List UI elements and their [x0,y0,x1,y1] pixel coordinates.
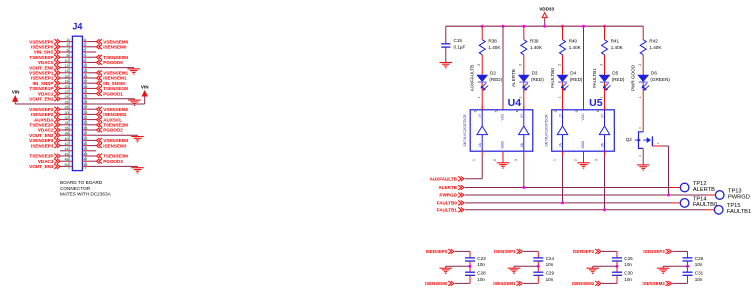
svg-text:(RED): (RED) [531,77,544,82]
svg-text:GND: GND [581,141,585,149]
svg-text:VIN: VIN [141,84,149,89]
svg-text:R40: R40 [569,38,578,43]
svg-text:1: 1 [553,159,557,161]
svg-text:C24: C24 [546,256,555,261]
svg-text:1: 1 [477,96,481,98]
svg-text:3: 3 [514,159,518,161]
svg-text:ISENSEM1: ISENSEM1 [493,281,516,286]
svg-text:FAULTB1: FAULTB1 [727,209,751,215]
svg-text:ALERTB: ALERTB [511,69,516,87]
svg-text:ISENSEM0: ISENSEM0 [425,281,448,286]
svg-text:PGOOD0: PGOOD0 [103,60,123,65]
svg-text:D6: D6 [651,71,657,76]
svg-text:VDD33: VDD33 [539,6,554,11]
svg-text:34: 34 [65,121,69,125]
svg-text:1.40K: 1.40K [649,45,662,50]
svg-text:ISENSEM3: ISENSEM3 [642,281,665,286]
svg-text:D2: D2 [490,71,496,76]
svg-text:ISENSEM0: ISENSEM0 [103,45,127,50]
svg-text:PWRGD: PWRGD [728,194,750,200]
svg-text:ISENSEP3: ISENSEP3 [31,143,54,148]
svg-text:1.40K: 1.40K [569,45,582,50]
svg-text:10n: 10n [695,277,703,282]
svg-text:ISENSEM3: ISENSEM3 [103,143,127,148]
svg-text:SN74LVC2G07DCR: SN74LVC2G07DCR [463,114,467,147]
svg-text:CONNECTOR: CONNECTOR [60,186,91,191]
svg-text:10n: 10n [624,262,632,267]
svg-text:4: 4 [596,110,600,112]
svg-text:10n: 10n [624,277,632,282]
svg-text:PWR GOOD: PWR GOOD [631,64,636,91]
svg-text:2: 2 [557,64,561,66]
svg-text:22: 22 [65,90,69,94]
svg-text:J4: J4 [72,22,82,32]
svg-text:1.40K: 1.40K [488,45,501,50]
svg-text:(RED): (RED) [612,77,625,82]
svg-text:R39: R39 [530,38,539,43]
svg-text:2: 2 [638,64,642,66]
svg-text:10n: 10n [477,277,485,282]
svg-text:ISENSEP0: ISENSEP0 [426,249,448,254]
svg-text:R41: R41 [611,38,620,43]
svg-text:2: 2 [574,159,578,161]
svg-text:PGOOD2: PGOOD2 [103,128,123,133]
svg-text:Q2: Q2 [626,137,633,142]
svg-text:2: 2 [477,64,481,66]
svg-text:8: 8 [67,54,69,58]
svg-text:6: 6 [67,48,69,52]
svg-text:VIN: VIN [12,89,20,94]
svg-text:44: 44 [65,147,69,151]
svg-text:10n: 10n [546,277,554,282]
svg-text:ISENSEP2: ISENSEP2 [573,249,595,254]
svg-text:36: 36 [65,126,69,130]
svg-text:C23: C23 [477,256,486,261]
svg-text:FAULTB0: FAULTB0 [550,68,555,88]
svg-text:38: 38 [65,132,69,136]
svg-text:D5: D5 [612,71,618,76]
svg-text:30: 30 [65,111,69,115]
svg-text:4: 4 [67,43,69,47]
svg-text:C28: C28 [477,270,486,275]
svg-text:AUXFAULTB: AUXFAULTB [470,65,475,91]
svg-text:FAULTB0: FAULTB0 [437,201,458,206]
svg-text:1.40K: 1.40K [530,45,543,50]
svg-text:1: 1 [472,159,476,161]
svg-text:SN74LVC2G07DCR: SN74LVC2G07DCR [544,114,548,147]
svg-text:D4: D4 [570,71,576,76]
svg-text:C30: C30 [624,270,633,275]
svg-text:FAULTB1: FAULTB1 [592,68,597,88]
svg-text:(RED): (RED) [489,77,502,82]
svg-text:(RED): (RED) [570,77,583,82]
svg-text:14: 14 [65,69,69,73]
svg-text:2: 2 [67,38,69,42]
svg-text:10: 10 [65,59,69,63]
svg-text:1: 1 [557,96,561,98]
svg-text:PWRGD: PWRGD [439,193,457,198]
svg-text:VOUT_EN1: VOUT_EN1 [29,97,54,102]
svg-text:2: 2 [599,64,603,66]
svg-text:GND: GND [500,141,504,149]
svg-text:4: 4 [515,110,519,112]
svg-text:U5: U5 [589,97,603,109]
svg-text:50: 50 [65,163,69,167]
svg-text:MATES WITH DC2363A: MATES WITH DC2363A [60,192,112,197]
svg-text:0.1µF: 0.1µF [454,44,466,49]
svg-text:10n: 10n [546,262,554,267]
svg-text:5: 5 [495,110,499,112]
svg-text:FAULTB1: FAULTB1 [437,208,458,213]
svg-text:2: 2 [493,159,497,161]
svg-text:U4: U4 [508,97,522,109]
svg-text:ISENSEP1: ISENSEP1 [494,249,516,254]
svg-text:5: 5 [575,110,579,112]
svg-text:46: 46 [65,152,69,156]
svg-text:PGOOD3: PGOOD3 [103,159,123,164]
svg-text:18: 18 [65,80,69,84]
svg-text:ISENSEP3: ISENSEP3 [643,249,665,254]
svg-text:C15: C15 [454,38,463,43]
svg-text:20: 20 [65,85,69,89]
svg-text:ISENSEM2: ISENSEM2 [572,281,595,286]
svg-text:BOARD TO BOARD: BOARD TO BOARD [60,180,103,185]
svg-text:(GREEN): (GREEN) [650,77,670,82]
svg-text:AUXFAULTB: AUXFAULTB [430,177,458,182]
svg-text:24: 24 [65,95,69,99]
svg-text:C26: C26 [695,256,704,261]
svg-text:42: 42 [65,142,69,146]
svg-text:28: 28 [65,106,69,110]
svg-text:D3: D3 [532,71,538,76]
svg-text:32: 32 [65,116,69,120]
svg-text:6: 6 [554,110,558,112]
svg-text:ALERTB: ALERTB [693,187,715,193]
svg-text:PGOOD1: PGOOD1 [103,91,123,96]
svg-text:VCC: VCC [581,113,585,121]
svg-text:12: 12 [65,64,69,68]
svg-text:40: 40 [65,137,69,141]
svg-text:16: 16 [65,74,69,78]
svg-text:ALERTB: ALERTB [438,185,457,190]
svg-text:10n: 10n [477,262,485,267]
svg-text:C31: C31 [695,270,704,275]
svg-text:R42: R42 [649,38,658,43]
svg-text:FAULTB0: FAULTB0 [693,202,717,208]
svg-text:2: 2 [519,64,523,66]
svg-text:VCC: VCC [500,113,504,121]
svg-text:C25: C25 [624,256,633,261]
svg-text:6: 6 [474,110,478,112]
svg-text:48: 48 [65,158,69,162]
svg-text:10n: 10n [695,262,703,267]
svg-text:VOUT_EN3: VOUT_EN3 [29,164,54,169]
svg-text:R38: R38 [488,38,497,43]
svg-text:1: 1 [638,96,642,98]
svg-text:3: 3 [595,159,599,161]
svg-text:1.40K: 1.40K [611,45,624,50]
svg-text:C29: C29 [546,270,555,275]
